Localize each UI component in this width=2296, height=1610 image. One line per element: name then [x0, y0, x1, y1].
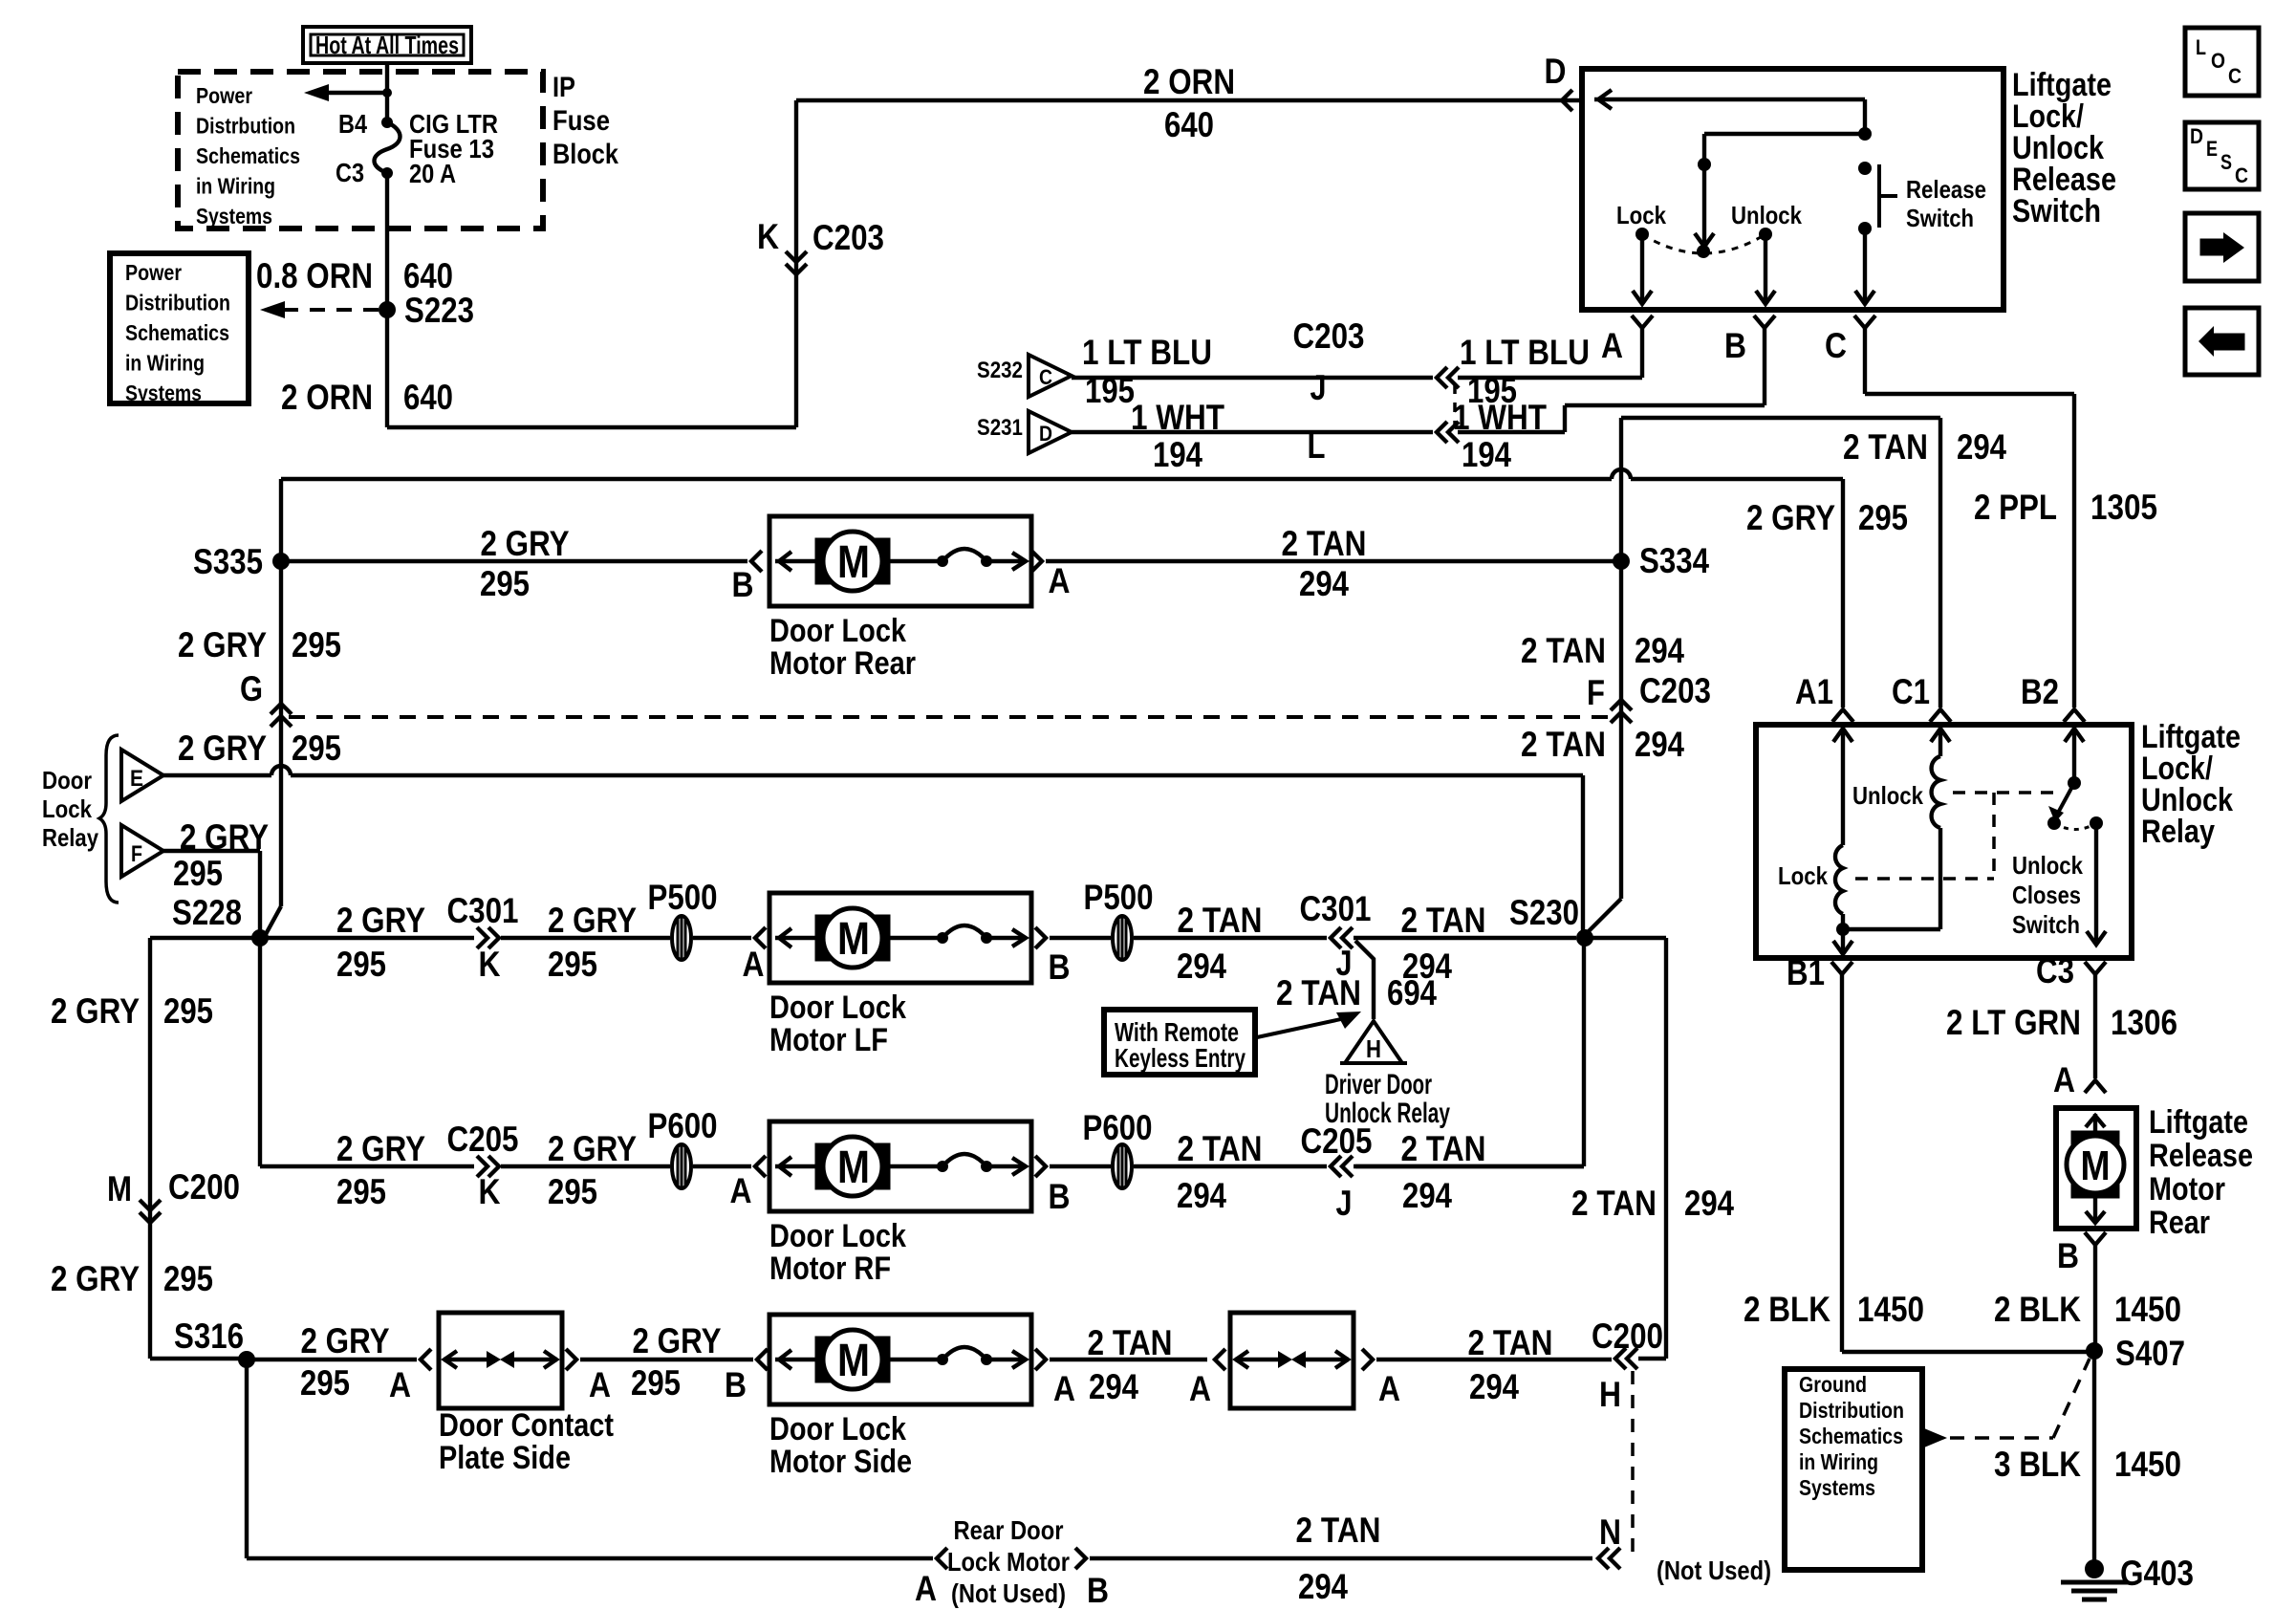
svg-text:2 TAN: 2 TAN	[1088, 1323, 1173, 1362]
svg-text:294: 294	[1469, 1367, 1519, 1406]
svg-text:2 GRY: 2 GRY	[481, 524, 570, 563]
svg-text:Unlock: Unlock	[1731, 201, 1802, 229]
svg-text:194: 194	[1462, 435, 1511, 474]
svg-text:Motor: Motor	[2149, 1171, 2225, 1207]
svg-text:294: 294	[1089, 1367, 1138, 1406]
svg-text:J: J	[1336, 1184, 1353, 1223]
svg-text:Distribution: Distribution	[125, 291, 230, 315]
svg-text:Power: Power	[125, 260, 182, 285]
svg-text:1 WHT: 1 WHT	[1453, 398, 1547, 437]
svg-text:C1: C1	[1892, 672, 1930, 711]
svg-text:2 TAN: 2 TAN	[1178, 901, 1263, 940]
svg-text:295: 295	[292, 625, 341, 664]
svg-text:Lock Motor: Lock Motor	[947, 1547, 1070, 1577]
svg-text:2 TAN: 2 TAN	[1178, 1129, 1263, 1168]
svg-text:P600: P600	[1083, 1108, 1153, 1147]
svg-text:1 LT BLU: 1 LT BLU	[1082, 333, 1212, 372]
svg-text:Fuse: Fuse	[552, 105, 610, 137]
svg-text:Block: Block	[552, 139, 618, 170]
svg-text:Door Lock: Door Lock	[769, 613, 906, 649]
svg-text:640: 640	[403, 378, 453, 417]
svg-text:Switch: Switch	[2012, 910, 2080, 939]
svg-text:2 GRY: 2 GRY	[180, 817, 269, 857]
svg-text:2 GRY: 2 GRY	[336, 901, 425, 940]
svg-text:295: 295	[163, 991, 213, 1031]
svg-text:M: M	[837, 537, 870, 588]
svg-text:A: A	[915, 1569, 937, 1608]
svg-text:B: B	[1724, 326, 1746, 365]
svg-text:2 GRY: 2 GRY	[178, 625, 267, 664]
svg-text:694: 694	[1387, 973, 1437, 1012]
svg-text:294: 294	[1299, 564, 1349, 603]
svg-text:Release: Release	[1906, 175, 1986, 204]
svg-text:295: 295	[548, 1172, 597, 1211]
svg-text:C301: C301	[1300, 889, 1372, 928]
svg-text:Door Lock: Door Lock	[769, 990, 906, 1026]
svg-text:Unlock: Unlock	[1852, 781, 1923, 810]
svg-text:2 TAN: 2 TAN	[1401, 1129, 1486, 1168]
svg-text:B1: B1	[1787, 953, 1825, 992]
svg-text:in Wiring: in Wiring	[1799, 1449, 1878, 1474]
svg-text:Systems: Systems	[196, 204, 272, 228]
svg-text:M: M	[837, 1142, 870, 1193]
svg-text:295: 295	[292, 729, 341, 768]
svg-text:2 GRY: 2 GRY	[336, 1129, 425, 1168]
svg-text:K: K	[479, 1172, 501, 1211]
svg-text:Hot At All Times: Hot At All Times	[315, 31, 459, 59]
svg-text:S407: S407	[2115, 1334, 2185, 1373]
svg-text:Motor RF: Motor RF	[769, 1251, 891, 1287]
svg-text:S335: S335	[193, 542, 263, 581]
svg-text:2 ORN: 2 ORN	[281, 378, 373, 417]
svg-text:Keyless Entry: Keyless Entry	[1115, 1043, 1245, 1073]
svg-text:B: B	[1087, 1571, 1109, 1610]
svg-text:1450: 1450	[1857, 1290, 1924, 1329]
svg-text:A: A	[1049, 561, 1071, 600]
svg-text:P500: P500	[648, 878, 718, 917]
svg-text:C200: C200	[1592, 1316, 1663, 1356]
svg-text:295: 295	[1858, 498, 1908, 537]
svg-text:G403: G403	[2120, 1554, 2194, 1593]
svg-text:Door Lock: Door Lock	[769, 1411, 906, 1447]
svg-text:Release: Release	[2149, 1138, 2253, 1174]
svg-text:O: O	[2211, 49, 2225, 73]
svg-text:C: C	[1039, 365, 1052, 389]
svg-text:Distribution: Distribution	[1799, 1398, 1904, 1423]
svg-text:1 WHT: 1 WHT	[1131, 398, 1224, 437]
svg-text:0.8 ORN: 0.8 ORN	[256, 256, 373, 295]
svg-text:F: F	[1587, 673, 1605, 712]
svg-text:Unlock: Unlock	[2012, 851, 2083, 880]
svg-text:L: L	[2196, 35, 2206, 59]
svg-text:S334: S334	[1639, 541, 1709, 580]
svg-text:294: 294	[1957, 427, 2006, 467]
svg-text:K: K	[757, 217, 779, 256]
svg-text:294: 294	[1684, 1184, 1734, 1223]
svg-text:1450: 1450	[2114, 1445, 2181, 1484]
svg-text:2 PPL: 2 PPL	[1974, 488, 2057, 527]
svg-text:A: A	[589, 1365, 611, 1404]
svg-text:S232: S232	[977, 358, 1023, 383]
svg-text:2 TAN: 2 TAN	[1296, 1511, 1381, 1550]
svg-text:2 GRY: 2 GRY	[51, 1259, 140, 1298]
svg-text:K: K	[479, 945, 501, 984]
svg-text:Rear: Rear	[2149, 1205, 2210, 1241]
svg-text:Lock: Lock	[42, 794, 92, 823]
svg-text:2 BLK: 2 BLK	[1744, 1290, 1830, 1329]
svg-text:A: A	[1053, 1369, 1075, 1408]
svg-text:2 ORN: 2 ORN	[1143, 62, 1235, 101]
svg-text:B: B	[2057, 1236, 2079, 1275]
svg-text:Systems: Systems	[125, 381, 202, 405]
svg-text:N: N	[1599, 1512, 1621, 1552]
svg-text:A1: A1	[1795, 672, 1833, 711]
svg-text:294: 294	[1635, 725, 1684, 764]
svg-text:C203: C203	[1639, 671, 1711, 710]
svg-text:IP: IP	[552, 72, 575, 103]
svg-text:C3: C3	[336, 158, 364, 187]
svg-text:295: 295	[480, 564, 530, 603]
svg-text:2 GRY: 2 GRY	[548, 1129, 637, 1168]
svg-text:H: H	[1599, 1375, 1621, 1414]
svg-text:B: B	[1049, 1177, 1071, 1216]
svg-text:294: 294	[1402, 1176, 1452, 1215]
svg-text:3 BLK: 3 BLK	[1994, 1445, 2081, 1484]
svg-text:S228: S228	[172, 893, 242, 932]
svg-text:295: 295	[631, 1363, 681, 1403]
svg-text:B: B	[725, 1365, 747, 1404]
svg-text:D: D	[1039, 422, 1052, 446]
svg-text:Power: Power	[196, 83, 252, 108]
svg-text:Distrbution: Distrbution	[196, 114, 295, 139]
svg-text:C: C	[1825, 326, 1847, 365]
svg-text:A: A	[389, 1365, 411, 1404]
svg-text:A: A	[1378, 1369, 1400, 1408]
svg-text:Relay: Relay	[2141, 814, 2215, 850]
svg-text:M: M	[837, 914, 870, 965]
svg-text:Switch: Switch	[2012, 193, 2101, 229]
svg-text:(Not Used): (Not Used)	[1657, 1556, 1771, 1585]
svg-text:294: 294	[1298, 1567, 1348, 1606]
svg-text:2 TAN: 2 TAN	[1521, 725, 1606, 764]
svg-text:B: B	[732, 565, 754, 604]
svg-text:640: 640	[1164, 105, 1214, 144]
svg-text:1306: 1306	[2111, 1003, 2177, 1042]
svg-text:2 GRY: 2 GRY	[633, 1321, 722, 1360]
svg-text:2 TAN: 2 TAN	[1276, 973, 1361, 1012]
svg-text:294: 294	[1635, 631, 1684, 670]
svg-text:Door Lock: Door Lock	[769, 1218, 906, 1254]
svg-text:Rear Door: Rear Door	[954, 1515, 1064, 1545]
svg-text:A: A	[743, 945, 765, 984]
svg-text:B4: B4	[338, 109, 367, 139]
svg-text:G: G	[240, 669, 263, 708]
svg-text:Ground: Ground	[1799, 1372, 1867, 1397]
svg-text:M: M	[2081, 1142, 2111, 1189]
svg-text:S: S	[2220, 150, 2232, 174]
svg-text:Liftgate: Liftgate	[2149, 1104, 2248, 1141]
svg-text:P600: P600	[648, 1106, 718, 1145]
svg-text:H: H	[1366, 1034, 1381, 1063]
svg-text:C203: C203	[812, 218, 884, 257]
svg-text:2 TAN: 2 TAN	[1401, 901, 1486, 940]
svg-text:2 TAN: 2 TAN	[1282, 524, 1367, 563]
svg-text:C: C	[2235, 163, 2248, 187]
svg-text:2 GRY: 2 GRY	[301, 1321, 390, 1360]
svg-text:P500: P500	[1084, 878, 1154, 917]
svg-text:Lock: Lock	[1778, 861, 1828, 890]
svg-text:2 GRY: 2 GRY	[548, 901, 637, 940]
svg-text:in Wiring: in Wiring	[125, 351, 205, 376]
svg-text:Schematics: Schematics	[196, 143, 300, 168]
svg-text:S230: S230	[1509, 893, 1579, 932]
svg-text:C205: C205	[1301, 1121, 1373, 1161]
svg-text:A: A	[2053, 1060, 2075, 1099]
svg-text:M: M	[837, 1336, 870, 1386]
svg-text:Motor Rear: Motor Rear	[769, 645, 916, 682]
svg-text:C: C	[2228, 64, 2242, 88]
svg-text:C3: C3	[2036, 951, 2074, 990]
svg-text:A: A	[1601, 326, 1623, 365]
svg-text:Lock: Lock	[1616, 201, 1666, 229]
svg-text:B: B	[1049, 947, 1071, 987]
svg-text:Door: Door	[42, 766, 92, 794]
svg-text:D: D	[1545, 52, 1567, 91]
svg-text:J: J	[1310, 368, 1327, 407]
svg-text:Door Contact: Door Contact	[439, 1407, 614, 1444]
svg-text:194: 194	[1153, 435, 1202, 474]
svg-text:Motor LF: Motor LF	[769, 1022, 888, 1058]
svg-text:294: 294	[1177, 1176, 1226, 1215]
svg-text:(Not Used): (Not Used)	[951, 1578, 1066, 1608]
svg-text:Schematics: Schematics	[125, 320, 229, 345]
svg-text:2 TAN: 2 TAN	[1521, 631, 1606, 670]
svg-text:2 GRY: 2 GRY	[51, 991, 140, 1031]
svg-text:A: A	[1189, 1369, 1211, 1408]
svg-text:C200: C200	[168, 1167, 240, 1207]
svg-text:Systems: Systems	[1799, 1475, 1875, 1500]
svg-text:L: L	[1308, 426, 1326, 466]
svg-text:295: 295	[336, 1172, 386, 1211]
svg-text:C205: C205	[447, 1120, 519, 1159]
svg-text:2 BLK: 2 BLK	[1994, 1290, 2081, 1329]
svg-text:Relay: Relay	[42, 823, 98, 852]
svg-text:2 GRY: 2 GRY	[1746, 498, 1835, 537]
svg-text:295: 295	[336, 945, 386, 984]
svg-text:E: E	[130, 766, 143, 792]
svg-text:295: 295	[173, 854, 223, 893]
svg-text:2 LT GRN: 2 LT GRN	[1946, 1003, 2081, 1042]
svg-text:S316: S316	[174, 1316, 244, 1356]
svg-text:F: F	[131, 841, 142, 867]
svg-text:Motor Side: Motor Side	[769, 1444, 912, 1480]
svg-text:Driver Door: Driver Door	[1325, 1069, 1432, 1100]
svg-text:S231: S231	[977, 415, 1023, 441]
svg-text:20 A: 20 A	[409, 159, 456, 188]
svg-text:Closes: Closes	[2012, 881, 2081, 909]
svg-text:294: 294	[1177, 946, 1226, 986]
svg-text:1450: 1450	[2114, 1290, 2181, 1329]
svg-text:2 TAN: 2 TAN	[1843, 427, 1928, 467]
svg-text:2 TAN: 2 TAN	[1468, 1323, 1553, 1362]
svg-text:195: 195	[1085, 371, 1135, 410]
svg-text:2 TAN: 2 TAN	[1571, 1184, 1657, 1223]
svg-text:Plate Side: Plate Side	[439, 1440, 571, 1476]
svg-text:D: D	[2190, 124, 2203, 148]
svg-text:295: 295	[548, 945, 597, 984]
svg-text:C203: C203	[1293, 316, 1365, 356]
svg-text:1305: 1305	[2090, 488, 2157, 527]
svg-text:A: A	[730, 1171, 752, 1210]
svg-text:Schematics: Schematics	[1799, 1424, 1903, 1448]
svg-text:in Wiring: in Wiring	[196, 174, 275, 199]
svg-text:295: 295	[163, 1259, 213, 1298]
svg-text:1 LT BLU: 1 LT BLU	[1460, 333, 1590, 372]
svg-text:S223: S223	[404, 291, 474, 330]
svg-text:M: M	[107, 1169, 132, 1208]
svg-text:640: 640	[403, 256, 453, 295]
svg-text:E: E	[2206, 137, 2218, 161]
svg-text:295: 295	[300, 1363, 350, 1403]
svg-text:2 GRY: 2 GRY	[178, 729, 267, 768]
svg-text:C301: C301	[447, 891, 519, 930]
svg-text:Switch: Switch	[1906, 204, 1974, 232]
svg-text:B2: B2	[2021, 672, 2059, 711]
